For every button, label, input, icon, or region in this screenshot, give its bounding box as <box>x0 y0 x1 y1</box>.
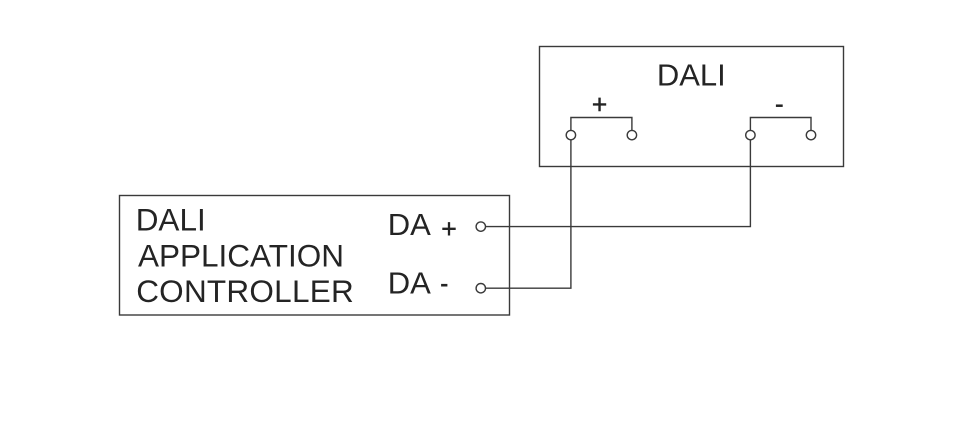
box U1 DALI APPLICATION CONTROLLER <box>120 196 510 316</box>
terminal plus-right <box>627 130 636 139</box>
wire DA+ to DALI minus-left terminal <box>486 140 751 227</box>
wire DA- to DALI plus-left terminal <box>486 140 571 288</box>
pin symbol plus of DA+ <box>442 222 455 235</box>
bracket minus pair <box>750 118 811 131</box>
terminal DA- (circle on controller) <box>476 284 485 293</box>
terminal minus-right <box>806 130 815 139</box>
terminal minus-left <box>746 130 755 139</box>
box U2 DALI <box>540 47 844 167</box>
svg-text:DALI: DALI <box>657 58 726 93</box>
svg-text:APPLICATION: APPLICATION <box>138 238 344 274</box>
bracket plus pair <box>571 118 632 131</box>
terminal plus-left <box>566 130 575 139</box>
svg-text:DA: DA <box>388 265 431 300</box>
symbol minus <box>776 104 783 107</box>
pin symbol minus of DA- <box>441 284 447 287</box>
terminal DA+ (circle on controller) <box>476 222 485 231</box>
svg-text:CONTROLLER: CONTROLLER <box>136 273 354 309</box>
svg-text:DALI: DALI <box>136 202 206 238</box>
svg-text:DA: DA <box>388 207 431 242</box>
symbol plus <box>593 98 606 112</box>
